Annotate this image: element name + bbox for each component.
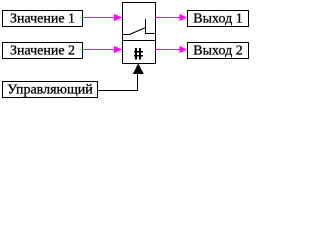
svg-text:Управляющий: Управляющий: [7, 83, 93, 98]
svg-text:Выход 2: Выход 2: [193, 44, 242, 59]
svg-text:Выход 1: Выход 1: [193, 12, 242, 27]
svg-text:Значение 1: Значение 1: [10, 12, 75, 27]
svg-text:Значение 2: Значение 2: [10, 44, 75, 59]
